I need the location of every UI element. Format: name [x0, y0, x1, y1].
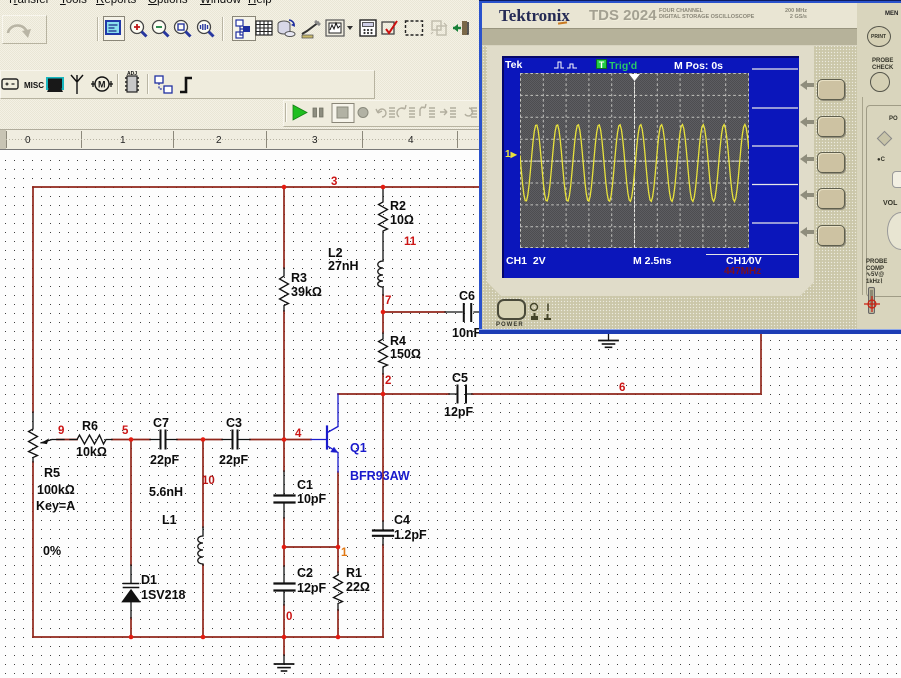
- svg-text:ADJ: ADJ: [127, 71, 137, 77]
- toolbar row 1: [2, 15, 47, 44]
- svg-text:2: 2: [385, 375, 391, 387]
- disabled step icons: [376, 104, 477, 117]
- svg-text:R6: R6: [82, 419, 98, 433]
- ruler: [0, 129, 901, 151]
- wire net1: [284, 546, 338, 548]
- icon: zoom fit: [198, 21, 214, 37]
- waveform CH1: [520, 125, 749, 202]
- wire R3 column: [283, 188, 285, 637]
- svg-text:3: 3: [331, 176, 337, 188]
- capacitor C5: [449, 386, 472, 403]
- wire C4 column: [382, 394, 384, 637]
- svg-text:22pF: 22pF: [219, 453, 249, 467]
- svg-text:R1: R1: [346, 566, 362, 580]
- transistor Q1: [311, 394, 338, 472]
- POWER button: [497, 299, 526, 320]
- capacitor C4: [373, 521, 393, 545]
- icon: hierarchy: [236, 20, 250, 38]
- capacitor C3: [222, 431, 250, 449]
- wire R2 L2 column: [382, 295, 384, 394]
- wire net7 to C6: [383, 311, 445, 313]
- svg-text:C7: C7: [153, 416, 169, 430]
- icon: show page (screen): [105, 20, 121, 35]
- toolbar row 2: [0, 70, 375, 99]
- icon: grapher: [326, 20, 344, 36]
- icon: zoom in: [131, 21, 147, 37]
- top status row: [505, 59, 522, 71]
- menu buttons F1-F5: [817, 79, 845, 100]
- svg-text:27nH: 27nH: [328, 259, 359, 273]
- svg-text:1: 1: [120, 135, 126, 146]
- svg-text:2: 2: [216, 135, 222, 146]
- ground net0: [275, 655, 294, 671]
- trigger marker: [629, 74, 640, 81]
- svg-text:5: 5: [122, 425, 129, 437]
- icon: disabled pages: [431, 21, 447, 35]
- stop in sunken box: [332, 104, 354, 123]
- svg-text:1SV218: 1SV218: [141, 588, 186, 602]
- svg-text:C5: C5: [452, 371, 468, 385]
- separators: [98, 17, 223, 41]
- pause: [313, 108, 323, 117]
- svg-text:100kΩ: 100kΩ: [37, 483, 75, 497]
- bottom status row: [506, 255, 546, 267]
- icon: region select: [406, 21, 423, 35]
- svg-text:D1: D1: [141, 573, 157, 587]
- wire left column: [32, 187, 34, 637]
- wire net9 net5 net4 row: [57, 439, 311, 441]
- svg-text:Q1: Q1: [350, 441, 367, 455]
- svg-text:Key=A: Key=A: [36, 499, 75, 513]
- svg-text:R4: R4: [390, 334, 406, 348]
- svg-text:11: 11: [404, 236, 417, 248]
- resistor R3: [280, 268, 289, 311]
- PROBE CHECK: [872, 58, 893, 71]
- svg-text:7: 7: [385, 295, 391, 307]
- wire net0 bottom: [33, 636, 383, 638]
- svg-text:9: 9: [58, 425, 64, 437]
- icon: bus: [180, 78, 192, 92]
- svg-text:5.6nH: 5.6nH: [149, 485, 183, 499]
- icon: IC chip: [125, 71, 139, 92]
- icon: battery box: [2, 79, 18, 89]
- screen: [502, 56, 799, 278]
- pressed button boxes: [104, 17, 125, 41]
- icon: ERC check: [382, 21, 397, 34]
- icon: antenna: [71, 75, 83, 94]
- svg-text:R2: R2: [390, 199, 406, 213]
- capacitor C2: [275, 566, 295, 605]
- junction nodes: [129, 185, 386, 640]
- inductor L2: [378, 261, 383, 295]
- svg-text:12pF: 12pF: [444, 405, 474, 419]
- svg-text:1: 1: [341, 547, 348, 559]
- icon: zoom area: [175, 21, 191, 37]
- oscilloscope XSC1 window: [479, 0, 901, 334]
- icon: postprocessor: [360, 20, 376, 36]
- svg-text:10Ω: 10Ω: [390, 213, 414, 227]
- varactor diode D1: [122, 565, 140, 618]
- svg-text:C1: C1: [297, 478, 313, 492]
- PROBE COMP: [866, 259, 887, 285]
- wire ground lead: [283, 637, 285, 655]
- svg-text:C3: C3: [226, 416, 242, 430]
- capacitor C7: [150, 431, 177, 449]
- svg-text:C6: C6: [459, 289, 475, 303]
- svg-text:4: 4: [295, 428, 302, 440]
- resistor R1: [334, 572, 343, 610]
- screen bezel: [487, 46, 814, 296]
- svg-text:10kΩ: 10kΩ: [76, 445, 107, 459]
- play: [293, 105, 307, 120]
- potentiometer R5: [29, 412, 65, 462]
- capacitor C6: [445, 304, 481, 321]
- svg-text:0: 0: [25, 135, 31, 146]
- icon: database manager: [278, 20, 295, 37]
- simulation toolbar: [283, 100, 483, 127]
- icon: hierarchy2: [155, 76, 172, 93]
- svg-text:6: 6: [619, 382, 625, 394]
- svg-text:L1: L1: [162, 513, 177, 527]
- svg-text:12pF: 12pF: [297, 581, 327, 595]
- capacitor C1: [275, 471, 295, 518]
- ground scope: [599, 334, 618, 347]
- svg-text:10nF: 10nF: [452, 326, 482, 340]
- svg-text:10: 10: [202, 475, 215, 487]
- wire net3 top: [33, 186, 481, 188]
- svg-text:150Ω: 150Ω: [390, 347, 421, 361]
- record: [358, 108, 368, 118]
- plot grid: [520, 73, 749, 248]
- channel 1 marker: [505, 149, 517, 160]
- Tektronix logo: [499, 6, 570, 26]
- wire emitter to net1: [337, 472, 339, 547]
- svg-text:L2: L2: [328, 246, 343, 260]
- vertical section panel: [866, 105, 901, 297]
- menu bar (clipped at top): [0, 0, 901, 8]
- icon: zoom out: [153, 21, 169, 37]
- svg-text:0%: 0%: [43, 544, 61, 558]
- resistor R2: [379, 188, 388, 261]
- svg-text:0: 0: [286, 611, 292, 623]
- wire D1 column: [130, 440, 132, 637]
- inductor L1: [198, 527, 203, 565]
- PRINT button: [867, 26, 891, 47]
- svg-text:MISC: MISC: [24, 81, 44, 90]
- icon: CRT: [46, 77, 64, 92]
- svg-text:M: M: [98, 80, 106, 90]
- svg-text:C4: C4: [394, 513, 410, 527]
- TDS 2024: [589, 7, 657, 24]
- svg-text:1.2pF: 1.2pF: [394, 528, 427, 542]
- power symbols: [529, 302, 555, 324]
- svg-text:3: 3: [312, 135, 318, 146]
- wire L1 column: [202, 440, 204, 637]
- icon: component wizard (pencil): [302, 21, 320, 38]
- svg-text:R3: R3: [291, 271, 307, 285]
- wire R1 column: [337, 547, 339, 637]
- resistor R4: [379, 333, 388, 374]
- svg-text:BFR93AW: BFR93AW: [350, 469, 410, 483]
- svg-text:10pF: 10pF: [297, 492, 327, 506]
- right control column: [857, 0, 901, 329]
- svg-text:39kΩ: 39kΩ: [291, 285, 322, 299]
- icon: back annotate: [453, 21, 468, 35]
- svg-text:4: 4: [408, 135, 414, 146]
- red probe connect point: [864, 296, 880, 312]
- svg-text:22pF: 22pF: [150, 453, 180, 467]
- svg-text:R5: R5: [44, 466, 60, 480]
- svg-text:22Ω: 22Ω: [346, 580, 370, 594]
- menu separators: [748, 56, 799, 266]
- wire net2 C5 net6: [338, 333, 761, 394]
- icon: spreadsheet grid: [256, 21, 272, 35]
- icon: motor: [91, 77, 113, 91]
- resistor R6: [70, 435, 112, 444]
- svg-text:C2: C2: [297, 566, 313, 580]
